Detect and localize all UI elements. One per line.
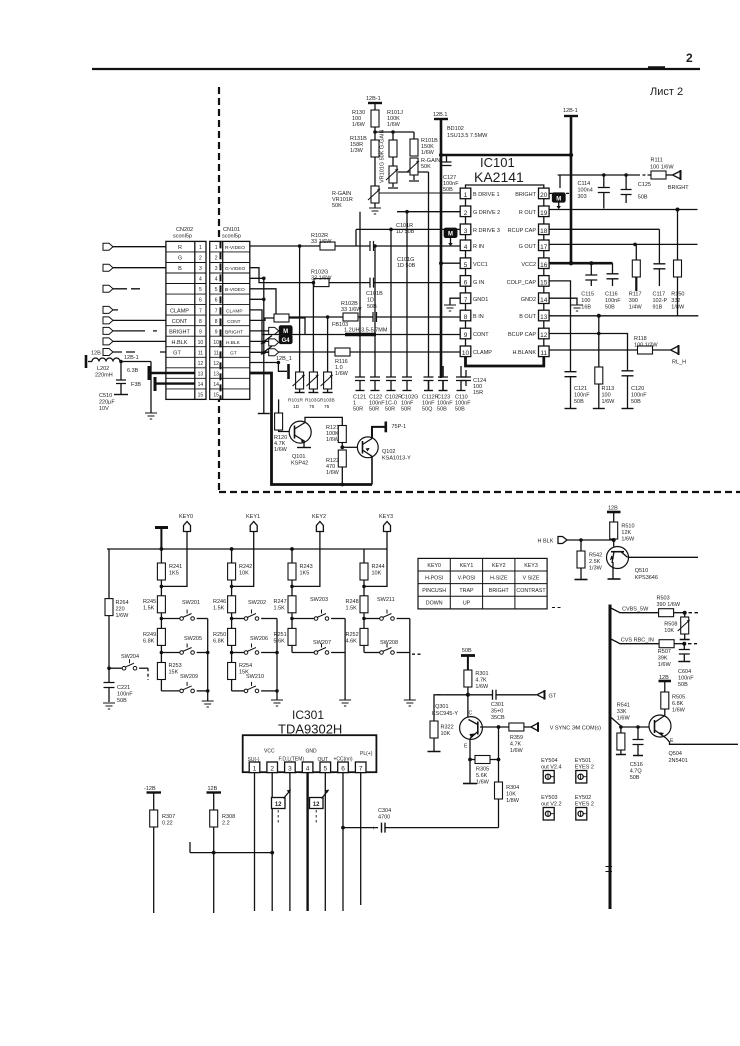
svg-text:SW201: SW201 (182, 600, 200, 606)
svg-text:39K: 39K (658, 656, 668, 662)
svg-text:CONT: CONT (473, 332, 489, 338)
pin 5 (320, 762, 331, 773)
svg-text:14: 14 (213, 382, 219, 388)
svg-text:33K: 33K (617, 709, 627, 715)
capacitor C102G (401, 210, 418, 413)
svg-text:8: 8 (464, 314, 468, 321)
capacitor C221 (104, 668, 134, 704)
svg-text:C125: C125 (638, 182, 651, 188)
svg-text:50B: 50B (462, 648, 472, 654)
svg-text:2: 2 (215, 256, 218, 262)
resistor R322 (428, 695, 454, 752)
svg-text:12B-1: 12B-1 (563, 108, 578, 114)
svg-text:332: 332 (671, 298, 680, 304)
svg-text:12: 12 (213, 361, 219, 367)
svg-text:8: 8 (215, 319, 218, 325)
resistor R122 (326, 450, 346, 486)
transistor Q504 (649, 715, 688, 764)
svg-text:14: 14 (540, 297, 548, 304)
svg-text:16: 16 (540, 262, 548, 269)
svg-text:H.BLK: H.BLK (226, 340, 241, 346)
svg-text:12: 12 (313, 802, 320, 808)
power 50B (461, 648, 475, 670)
svg-text:R508: R508 (664, 622, 677, 628)
svg-text:11: 11 (540, 350, 547, 357)
svg-text:C117: C117 (653, 292, 666, 298)
trimmer R101R (288, 246, 305, 410)
svg-text:H-SIZE: H-SIZE (490, 575, 508, 581)
resistor R113 (593, 316, 615, 409)
resistor R252 (346, 628, 369, 652)
svg-text:out V2.4: out V2.4 (541, 765, 562, 771)
svg-text:BRIGHT: BRIGHT (169, 329, 190, 335)
svg-text:R246: R246 (213, 599, 226, 605)
dashed region border vertical (218, 87, 220, 493)
capacitor C124 (461, 370, 486, 396)
wire bus to Q504 base (610, 717, 649, 728)
svg-text:EYES 2: EYES 2 (575, 802, 594, 808)
svg-text:R118: R118 (634, 336, 647, 342)
resistor R243 (288, 549, 313, 596)
svg-text:R507: R507 (658, 649, 671, 655)
svg-text:E: E (670, 738, 674, 744)
pin 12 (539, 328, 550, 339)
svg-text:SW202: SW202 (248, 600, 266, 606)
terminal H BLK (538, 537, 616, 545)
resistor R121 (326, 425, 346, 447)
svg-text:12: 12 (275, 802, 282, 808)
pin 4 (460, 240, 471, 251)
switch SW204 (109, 654, 148, 680)
svg-text:1K5: 1K5 (169, 571, 179, 577)
svg-text:50B: 50B (574, 399, 584, 405)
svg-text:303: 303 (578, 194, 587, 200)
pin 11 (539, 346, 550, 357)
capacitor C121 out (565, 372, 591, 409)
dashed border over connector (220, 241, 222, 399)
svg-text:1/6W: 1/6W (602, 399, 616, 405)
svg-text:11: 11 (214, 351, 219, 357)
svg-text:10V: 10V (99, 406, 109, 412)
capacitor C510 (99, 362, 126, 413)
svg-text:PINCUSH: PINCUSH (422, 588, 446, 594)
svg-text:7: 7 (464, 297, 468, 304)
crossing arrow 2 (261, 346, 273, 355)
svg-text:CVS RBC_IN: CVS RBC_IN (621, 638, 654, 644)
capacitor C604 (678, 644, 694, 688)
thick supply wire (441, 154, 571, 157)
svg-text:2: 2 (686, 51, 693, 65)
power -12B (144, 786, 161, 810)
svg-text:B OUT: B OUT (519, 314, 536, 320)
pin wires down (255, 773, 361, 911)
svg-text:4: 4 (306, 766, 310, 773)
resistor R241 (157, 549, 182, 596)
inductor L202 (86, 355, 151, 379)
pin 20 (539, 188, 550, 199)
svg-text:R505: R505 (672, 695, 685, 701)
svg-text:CN101: CN101 (223, 227, 240, 233)
svg-text:4.7Q: 4.7Q (630, 769, 643, 775)
input terminal 12B GT (91, 349, 166, 357)
Q504 emitter wire (666, 738, 738, 744)
pin 1 (460, 188, 471, 199)
thick wire pin16 VCC2 (549, 262, 612, 265)
svg-text:1: 1 (253, 766, 257, 773)
svg-text:11: 11 (198, 351, 203, 357)
svg-text:+: + (372, 826, 376, 832)
svg-text:R304: R304 (506, 785, 519, 791)
svg-text:L202: L202 (97, 366, 109, 372)
svg-text:1/6W: 1/6W (510, 748, 524, 754)
ground rail col3 (339, 619, 351, 707)
svg-text:12B.1: 12B.1 (433, 112, 447, 118)
svg-text:Q101: Q101 (292, 454, 305, 460)
keyboard supply tee (155, 528, 168, 550)
jumper EY503 (541, 795, 562, 820)
node 12B-1 (119, 360, 123, 364)
svg-text:KA2141: KA2141 (474, 169, 524, 185)
resistor R359 (509, 723, 531, 754)
terminal row11 GT (250, 349, 279, 356)
svg-text:50Q: 50Q (422, 407, 433, 413)
svg-text:KEY0: KEY0 (427, 563, 441, 569)
svg-text:SW206: SW206 (250, 636, 268, 642)
svg-text:B IN: B IN (473, 314, 484, 320)
svg-text:BRIGHT: BRIGHT (225, 329, 243, 335)
resistor R503 (657, 596, 700, 617)
pin 18 (539, 224, 550, 235)
power 12B-1 (366, 96, 382, 110)
capacitor C122 (369, 244, 385, 412)
svg-text:1/6W: 1/6W (352, 122, 366, 128)
svg-text:10: 10 (198, 340, 204, 346)
pin 6 (460, 276, 471, 287)
svg-text:33 1/6W: 33 1/6W (311, 276, 332, 282)
input terminal hblk (103, 338, 166, 345)
svg-text:1.5K: 1.5K (143, 606, 155, 612)
ground C221 (103, 703, 115, 709)
wire pin13 B OUT (549, 315, 698, 317)
svg-text:out V2.2: out V2.2 (541, 802, 562, 808)
node B (326, 315, 330, 319)
main rail (440, 155, 443, 378)
svg-text:R111: R111 (651, 158, 663, 164)
svg-text:4.7K: 4.7K (475, 678, 487, 684)
capacitor C117 (653, 229, 668, 310)
svg-text:100 1/6W: 100 1/6W (650, 165, 674, 171)
svg-text:R305: R305 (476, 767, 489, 773)
svg-text:VCC: VCC (264, 749, 275, 755)
Q510 emitter ground (608, 562, 621, 579)
resistor R102B (341, 301, 362, 321)
svg-text:1/3W: 1/3W (350, 148, 364, 154)
svg-text:EY502: EY502 (575, 795, 592, 801)
svg-text:KEY0: KEY0 (179, 514, 193, 520)
svg-text:C114: C114 (578, 181, 591, 187)
svg-text:C120: C120 (631, 386, 644, 392)
svg-text:1.5K: 1.5K (346, 606, 358, 612)
capacitor C101G (329, 257, 460, 288)
svg-text:100nF: 100nF (678, 676, 694, 682)
svg-text:2: 2 (270, 766, 274, 773)
trimmer VR101R (332, 186, 460, 209)
resistor R307 (150, 810, 175, 913)
capacitor C125 (621, 173, 651, 203)
trimmer VR101G (380, 129, 429, 188)
pin 10 (460, 346, 471, 357)
wire row5 jog (250, 289, 343, 317)
wire pin11 with resistor R118 (549, 336, 670, 354)
svg-text:10K: 10K (664, 628, 674, 634)
svg-text:R249: R249 (143, 632, 156, 638)
svg-text:4: 4 (199, 277, 202, 283)
svg-text:100n4: 100n4 (578, 188, 593, 194)
svg-text:50R: 50R (369, 407, 379, 413)
svg-text:1/6W: 1/6W (335, 371, 349, 377)
svg-text:G-VIDEO: G-VIDEO (225, 266, 246, 272)
svg-text:BRIGHT: BRIGHT (489, 588, 510, 594)
wire pin10 with resistor R116 (262, 348, 460, 377)
svg-text:C516: C516 (630, 762, 643, 768)
terminal V SYNC (531, 722, 601, 732)
jumper EY502 (575, 795, 594, 820)
svg-text:C301: C301 (491, 702, 504, 708)
wire stub near table (552, 607, 562, 609)
svg-text:sconl5p: sconl5p (222, 234, 241, 240)
svg-text:75: 75 (309, 404, 315, 410)
ground (369, 203, 381, 214)
switch SW207 (292, 640, 345, 654)
Q101 collector wire (305, 417, 342, 425)
node base Q102 (340, 445, 344, 449)
svg-text:KEY3: KEY3 (379, 514, 393, 520)
svg-text:50B: 50B (630, 775, 640, 781)
pin 2 (460, 206, 471, 217)
wire pin19 R OUT (549, 209, 697, 211)
svg-text:R117: R117 (629, 292, 642, 298)
svg-text:10: 10 (462, 350, 470, 357)
svg-text:4700: 4700 (378, 815, 390, 821)
resistor R301 (464, 670, 489, 695)
svg-text:COLP_CAP: COLP_CAP (507, 280, 537, 286)
svg-text:KSA1013-Y: KSA1013-Y (382, 456, 411, 462)
svg-text:GT: GT (230, 351, 237, 357)
pin 13 (539, 310, 550, 321)
svg-text:2: 2 (199, 256, 202, 262)
svg-text:3: 3 (215, 266, 218, 272)
resistor R111 (650, 158, 674, 180)
svg-text:SW209: SW209 (180, 674, 198, 680)
svg-text:CONT: CONT (172, 319, 188, 325)
svg-text:3: 3 (464, 228, 468, 235)
svg-text:5.6K: 5.6K (274, 639, 286, 645)
svg-text:6.8K: 6.8K (213, 639, 225, 645)
svg-text:R308: R308 (222, 814, 235, 820)
svg-text:EY501: EY501 (575, 758, 592, 764)
svg-text:10: 10 (213, 340, 219, 346)
resistor R244 (360, 549, 385, 596)
svg-text:KEY2: KEY2 (312, 514, 326, 520)
wire pin17 G OUT (549, 243, 697, 245)
fuse 6.3B (127, 366, 195, 380)
svg-text:1.5K: 1.5K (213, 606, 225, 612)
resistor R101B (410, 132, 438, 156)
svg-text:GT: GT (173, 351, 181, 357)
resistor R250 (213, 628, 236, 662)
svg-text:C: C (469, 711, 473, 717)
wire row8 cont (250, 318, 274, 320)
resistor R117 (629, 244, 643, 310)
pin 19 (539, 206, 550, 217)
svg-text:TDA9302H: TDA9302H (278, 722, 342, 737)
pin 3 (285, 762, 296, 773)
wire pin18 (549, 228, 659, 230)
svg-text:5.6K: 5.6K (476, 773, 488, 779)
svg-text:SW203: SW203 (310, 597, 328, 603)
svg-text:R150: R150 (671, 292, 684, 298)
resistor R101J (387, 110, 403, 166)
svg-text:KEY3: KEY3 (524, 563, 538, 569)
svg-text:IC301: IC301 (292, 708, 324, 722)
resistor R248 (346, 596, 369, 629)
capacitor C120 (622, 371, 648, 409)
svg-text:R243: R243 (300, 564, 313, 570)
svg-text:5: 5 (323, 766, 327, 773)
capacitor C101R (335, 223, 460, 251)
svg-text:GND2: GND2 (521, 297, 536, 303)
svg-text:4.6K: 4.6K (346, 639, 358, 645)
svg-text:G4: G4 (282, 338, 291, 344)
svg-text:100nF: 100nF (574, 393, 590, 399)
svg-text:13: 13 (198, 372, 204, 378)
svg-text:Q301: Q301 (435, 704, 448, 710)
svg-text:H.BLANK: H.BLANK (512, 350, 536, 356)
resistor R308 (210, 810, 235, 913)
thick wire row13 to bus (250, 373, 372, 485)
svg-text:50B: 50B (605, 305, 615, 311)
svg-text:BRIGHT: BRIGHT (515, 192, 536, 198)
terminal RL_H (671, 345, 687, 366)
svg-text:Q510: Q510 (635, 568, 648, 574)
svg-text:R251: R251 (274, 632, 287, 638)
svg-text:1/8W: 1/8W (671, 305, 685, 311)
trimmer R508 (664, 613, 689, 640)
svg-text:5: 5 (199, 287, 202, 293)
terminal BRIGHT (668, 170, 689, 191)
svg-text:sconl5p: sconl5p (173, 234, 192, 240)
svg-text:M: M (448, 232, 453, 238)
svg-text:12B: 12B (608, 506, 618, 512)
svg-text:PL(+): PL(+) (360, 751, 373, 757)
input terminal cont (103, 317, 166, 324)
wire pin12 (549, 334, 627, 371)
svg-text:VCC2: VCC2 (521, 262, 536, 268)
ground Q301 (463, 760, 477, 784)
svg-text:1/6W: 1/6W (326, 437, 340, 443)
svg-text:1/6W: 1/6W (621, 537, 635, 543)
svg-text:B-VIDEO: B-VIDEO (225, 287, 245, 293)
wire (375, 127, 414, 140)
crossing arrow 1 (261, 336, 273, 345)
pin 7 (460, 293, 471, 304)
svg-text:50B: 50B (117, 698, 127, 704)
svg-text:Q504: Q504 (669, 751, 682, 757)
capacitor C123 (437, 366, 453, 413)
svg-text:R359: R359 (510, 735, 523, 741)
resistor R120 (274, 399, 289, 453)
svg-text:R541: R541 (617, 703, 630, 709)
svg-text:2.5K: 2.5K (589, 559, 601, 565)
resistor R247 (274, 596, 297, 629)
switch SW211 (364, 597, 410, 620)
svg-text:220: 220 (116, 607, 125, 613)
power tap 12B_1 row12 (250, 356, 292, 379)
dashed region border horizontal (219, 491, 740, 493)
svg-text:1D: 1D (367, 298, 374, 304)
test point M pin20 (549, 193, 572, 209)
svg-text:R322: R322 (441, 725, 454, 731)
resistor R541 (616, 703, 631, 755)
svg-text:50R: 50R (353, 407, 363, 413)
svg-text:1/4W: 1/4W (629, 305, 643, 311)
capacitor C304 (341, 808, 498, 833)
resistor R253 (157, 663, 181, 691)
svg-text:C304: C304 (378, 808, 391, 814)
svg-text:1/3W: 1/3W (589, 566, 603, 572)
pin 6 (338, 762, 349, 773)
svg-text:100nF: 100nF (631, 393, 647, 399)
wire to ground (150, 362, 152, 414)
pin 3 (460, 224, 471, 235)
svg-text:GND: GND (306, 749, 318, 755)
svg-text:F3B: F3B (131, 382, 141, 388)
resistor R505 (661, 692, 686, 716)
svg-text:-12B: -12B (144, 786, 156, 792)
pin 15 (539, 276, 550, 287)
svg-text:3: 3 (288, 766, 292, 773)
transistor Q301 (432, 695, 482, 750)
IC101 body (466, 185, 544, 188)
svg-text:50B: 50B (638, 195, 648, 201)
capacitor C127 (442, 155, 460, 193)
jumper 12b (310, 790, 329, 825)
input terminal R (103, 243, 166, 250)
svg-text:12K: 12K (621, 530, 631, 536)
svg-text:1/6W: 1/6W (387, 122, 401, 128)
svg-text:CVBS_5W: CVBS_5W (622, 607, 649, 613)
resistor R130 (352, 110, 379, 128)
svg-text:15: 15 (540, 280, 548, 287)
resistor R117C (274, 314, 305, 335)
resistor R507 (658, 640, 697, 668)
svg-text:100nF: 100nF (117, 692, 133, 698)
pin 5 (460, 258, 471, 269)
svg-text:50B: 50B (455, 407, 465, 413)
key function table (418, 558, 547, 609)
svg-text:1K5: 1K5 (300, 571, 310, 577)
svg-text:C221: C221 (117, 685, 130, 691)
svg-text:102-P: 102-P (653, 298, 668, 304)
transistor Q102 (357, 437, 411, 462)
svg-text:1.2UH 3.5-5.7MM: 1.2UH 3.5-5.7MM (344, 328, 388, 334)
diode label BD102 (447, 126, 488, 139)
svg-text:GND1: GND1 (473, 297, 488, 303)
test point G row10 (250, 335, 292, 346)
svg-text:R103B: R103B (320, 398, 335, 404)
svg-text:6.8K: 6.8K (143, 639, 155, 645)
svg-text:100nF: 100nF (605, 298, 621, 304)
